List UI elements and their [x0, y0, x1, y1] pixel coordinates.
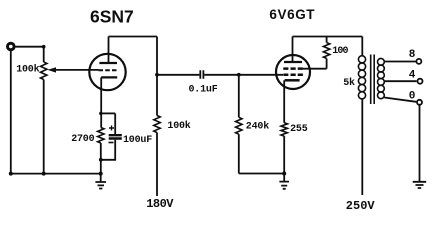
- U2 cathode lead: [283, 80, 285, 123]
- wire R6 top lead: [326, 37, 328, 43]
- wire cathode to bus: [100, 143, 102, 174]
- node pot top corner: [42, 45, 46, 49]
- svg-text:100k: 100k: [16, 64, 39, 76]
- resistor R2 2700 zigzag: [98, 128, 104, 144]
- wire jack to pot top: [16, 46, 44, 48]
- ground G1: [95, 174, 106, 189]
- wire jack ground lead: [10, 50, 12, 174]
- U1 cathode bar: [101, 76, 117, 78]
- svg-text:0: 0: [409, 91, 416, 103]
- svg-text:250V: 250V: [346, 199, 376, 213]
- U2 plate bar: [284, 61, 302, 63]
- terminal 0: [417, 100, 422, 105]
- wiper arrow of R1: [48, 67, 57, 72]
- U1 grid dashes: [99, 69, 117, 71]
- node 240k junction: [237, 73, 241, 77]
- terminal 4: [418, 79, 423, 84]
- capacitor C1 0.1uF plates: [200, 70, 203, 78]
- svg-text:6V6GT: 6V6GT: [269, 7, 315, 22]
- wire pot top lead: [43, 47, 45, 62]
- svg-text:2700: 2700: [71, 134, 94, 145]
- input jack J1: [8, 43, 15, 50]
- ground G2: [279, 174, 289, 189]
- U1 plate lead: [108, 37, 110, 64]
- node pot bus junction: [42, 172, 46, 176]
- wire cap C2 bottom lead: [101, 140, 115, 160]
- wire pot bottom lead: [43, 80, 45, 174]
- transformer T1 secondary winding: [378, 58, 385, 98]
- U1 cathode lead: [100, 77, 102, 127]
- U2 plate lead: [292, 37, 294, 63]
- wire plate node vertical: [156, 37, 158, 116]
- resistor R6 100 zigzag: [323, 43, 329, 59]
- wire 255 bottom lead: [283, 136, 285, 173]
- capacitor C2 100uF plates: [109, 135, 122, 138]
- U1 plate bar: [99, 62, 117, 64]
- svg-text:255: 255: [290, 124, 308, 135]
- svg-text:6SN7: 6SN7: [90, 7, 134, 27]
- resistor R4 240k zigzag: [236, 117, 242, 134]
- wire left ground bus: [11, 173, 101, 175]
- wire secondary tap 0: [384, 98, 416, 102]
- svg-text:5k: 5k: [343, 77, 355, 89]
- wire node to capacitor C1: [157, 74, 199, 76]
- wire R3 to 180V: [156, 133, 158, 197]
- wire transformer primary top lead: [361, 37, 363, 57]
- svg-text:8: 8: [409, 49, 416, 61]
- wire cap branch top rail: [101, 112, 115, 114]
- op tube U1 6SN7 envelope: [89, 54, 125, 90]
- svg-text:0.1uF: 0.1uF: [189, 85, 218, 96]
- resistor R3 100k zigzag: [154, 116, 160, 133]
- potentiometer R1 100k zigzag: [41, 62, 47, 80]
- wire terminal 0 to ground: [419, 105, 421, 181]
- C2 plus sign: [109, 126, 114, 131]
- node jack bus corner: [9, 172, 13, 176]
- C2 minus sign: [109, 142, 114, 144]
- transformer T1 primary winding 5k: [358, 56, 365, 99]
- resistor R5 255 zigzag: [281, 123, 287, 136]
- svg-text:180V: 180V: [146, 197, 174, 211]
- node right ground junction: [282, 172, 286, 176]
- node cathode network bottom: [99, 158, 103, 162]
- wire transformer primary bottom lead to 250V: [361, 99, 363, 195]
- U2 cathode bar: [285, 79, 300, 82]
- wire wiper to 6SN7 grid: [54, 69, 99, 71]
- wire right ground bus: [239, 173, 284, 175]
- wire C1 to 6V6 grid: [204, 74, 283, 76]
- U2 control grid dashes: [283, 74, 303, 77]
- wire cap C2 top lead: [114, 113, 116, 134]
- ground G3: [413, 182, 427, 188]
- wire 6SN7 plate to node: [109, 36, 158, 38]
- wire 6V6 plate to transformer: [293, 36, 363, 38]
- node plate junction: [155, 73, 159, 77]
- wire secondary tap 8: [384, 61, 416, 63]
- svg-text:4: 4: [409, 70, 416, 82]
- wire screen to R6: [303, 68, 327, 70]
- node ground bus junction: [99, 172, 103, 176]
- svg-text:100uF: 100uF: [123, 135, 152, 146]
- tube U2 6V6GT envelope: [276, 55, 310, 89]
- terminal 8: [416, 59, 421, 64]
- transformer T1 core: [371, 55, 375, 105]
- svg-text:240k: 240k: [246, 121, 269, 133]
- wire 240k top lead: [238, 75, 240, 118]
- svg-text:100k: 100k: [167, 120, 190, 132]
- U2 screen grid dashes: [283, 67, 303, 70]
- svg-text:100: 100: [332, 46, 348, 57]
- wire secondary tap 4: [384, 80, 416, 82]
- wire 240k bottom lead: [238, 134, 240, 173]
- node cathode network top: [99, 112, 102, 115]
- wire R6 bottom lead: [326, 58, 328, 68]
